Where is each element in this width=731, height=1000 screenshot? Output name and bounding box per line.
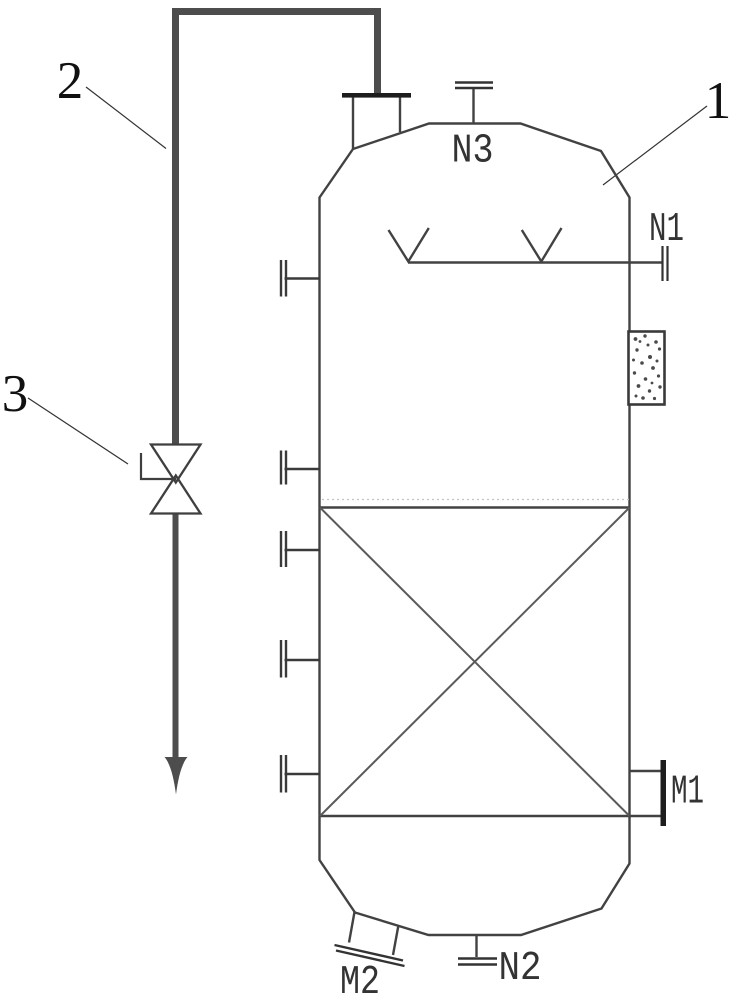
svg-text:2: 2 [57,52,84,110]
svg-text:M2: M2 [340,960,380,1000]
svg-text:M1: M1 [671,770,704,816]
svg-text:N3: N3 [452,129,494,175]
svg-text:3: 3 [2,365,29,423]
svg-text:N2: N2 [499,946,542,992]
svg-text:N1: N1 [649,207,684,253]
svg-text:1: 1 [705,72,731,130]
